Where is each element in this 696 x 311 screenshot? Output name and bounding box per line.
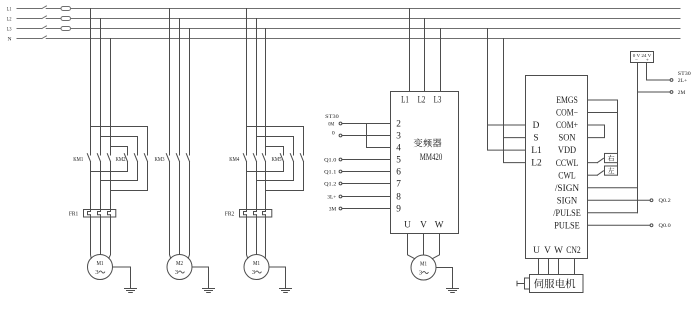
fuse on L3 <box>61 27 71 31</box>
VFD pin 5 number <box>396 156 401 166</box>
thermal relay FR1 box <box>84 210 116 218</box>
wire SIGN to Q0.2 <box>588 199 651 201</box>
svg-text:L2: L2 <box>418 96 426 106</box>
svg-text:3M: 3M <box>329 207 337 213</box>
svg-text:SIGN: SIGN <box>557 196 578 206</box>
servo terminal VDD label <box>558 146 576 156</box>
contactor KM4 contact 1 <box>243 154 246 162</box>
wire L3 drop to VFD <box>440 29 442 92</box>
VFD pin 2 number <box>396 120 401 130</box>
wire phase2 KM4 to FR2 <box>256 162 258 212</box>
wire L2 drop to KM1 contact 2 <box>100 19 102 156</box>
contactor KM2 contact 2 <box>134 154 137 162</box>
wire N drop to KM1 contact 3 <box>110 39 112 156</box>
svg-text:M1: M1 <box>420 261 427 268</box>
svg-text:L2: L2 <box>531 159 542 169</box>
wire L1 drop to KM3 contact 1 <box>169 9 171 156</box>
wire L1 bus segment 3 <box>71 8 681 10</box>
svg-text:S: S <box>533 134 538 144</box>
svg-text:Q1.2: Q1.2 <box>324 182 336 188</box>
servo motor shaft <box>517 278 530 289</box>
svg-text:L2: L2 <box>7 16 12 22</box>
node L2 label <box>7 16 12 22</box>
wire 3M to VFD pin 9 <box>342 208 391 210</box>
servo terminal CWL label <box>558 171 576 181</box>
contactor KM1 contact 2 <box>97 154 100 162</box>
VFD name 变频器 <box>414 138 442 147</box>
svg-text:FR1: FR1 <box>69 211 78 217</box>
wire L2 bus segment 1 <box>17 18 42 20</box>
servo motor label 伺服电机 <box>534 279 575 289</box>
svg-text:2M: 2M <box>678 90 686 96</box>
servo terminal U label <box>533 246 540 256</box>
wire phase3 KM1 to FR1 <box>110 162 112 212</box>
wire L3 drop to KM3 contact 3 <box>189 29 191 156</box>
wire KM5 contact 3 to phase3 <box>266 162 304 191</box>
svg-text:CWL: CWL <box>558 171 576 181</box>
ground (motor M1) <box>280 289 292 293</box>
wire phase3 KM3 to motor M2 <box>188 162 189 259</box>
svg-text:L1: L1 <box>531 146 542 156</box>
wire phase1 KM4 to FR2 <box>246 162 248 212</box>
limit switch left box <box>605 166 618 175</box>
servo terminal V label <box>544 246 551 256</box>
terminal 2M <box>670 90 685 96</box>
svg-text:9: 9 <box>396 205 401 215</box>
wire motor M1 to ground <box>113 267 131 289</box>
VFD terminal L2 label <box>418 96 426 106</box>
wire phase2 to KM2 contact 2 <box>101 137 138 156</box>
contactor KM4 contact 3 <box>262 154 265 162</box>
wire 3L+ to VFD pin 8 <box>342 196 391 198</box>
wire common vertical <box>617 100 619 175</box>
power supply polarity marks <box>635 57 649 63</box>
servo drive U2 box <box>526 76 588 259</box>
contactor KM1 contact 1 <box>87 154 90 162</box>
wire phase1 KM3 to motor M2 <box>170 162 171 259</box>
power supply G1 box <box>631 52 654 63</box>
svg-text:V: V <box>544 246 551 256</box>
wire servo S branch <box>504 137 526 139</box>
terminal 3L+ <box>327 195 342 201</box>
wire phase3 FR1 to motor <box>109 215 111 259</box>
svg-text:5: 5 <box>396 156 401 166</box>
wire KM5 contact 1 to phase1 <box>247 162 284 172</box>
wire phase2 KM3 to motor M2 <box>179 162 181 255</box>
ground (motor M2) <box>203 289 215 293</box>
wire L1 bus segment 2 <box>46 8 61 10</box>
wire servo CN2 to motor <box>574 259 576 275</box>
svg-text:N: N <box>8 36 12 42</box>
wire phase3 FR2 to motor <box>264 215 266 259</box>
frequency converter U1 box <box>391 92 459 234</box>
servo terminal COM+ label <box>556 121 578 131</box>
wire L2 drop to KM4 contact 2 <box>256 19 258 156</box>
wire PULSE to Q0.0 <box>588 224 651 226</box>
wire 0M to VFD pin 2 <box>342 123 391 125</box>
svg-text:MM420: MM420 <box>420 152 443 163</box>
node ST30 label (servo side) <box>678 71 691 77</box>
svg-text:2: 2 <box>396 120 401 130</box>
svg-text:0: 0 <box>332 130 335 136</box>
wire phase2 to KM5 contact 2 <box>257 137 294 156</box>
terminal 2L+ <box>670 78 687 84</box>
svg-text:2L+: 2L+ <box>678 78 687 84</box>
thermal relay FR2 label <box>225 211 234 217</box>
wire servo V to motor <box>548 259 550 275</box>
svg-text:KM3: KM3 <box>155 157 165 163</box>
wire CCWL to limit switch <box>588 162 598 164</box>
wire Q1.0 to VFD pin 5 <box>342 159 391 161</box>
svg-text:CCWL: CCWL <box>556 159 579 169</box>
svg-text:Q1.0: Q1.0 <box>324 158 336 164</box>
svg-text:6: 6 <box>396 168 401 178</box>
wire COM- to common <box>588 112 618 114</box>
jumper pin2 to pin4 <box>367 124 391 148</box>
terminal 3M <box>329 207 342 213</box>
wire VFD V to motor <box>423 234 425 256</box>
contactor KM5 contact 1 <box>280 154 283 162</box>
fuse on L1 <box>61 7 71 11</box>
contactor KM1 contact 3 <box>107 154 110 162</box>
svg-text:Q1.1: Q1.1 <box>324 170 336 176</box>
svg-text:KM5: KM5 <box>272 157 282 163</box>
svg-text:3: 3 <box>175 269 178 276</box>
VFD pin 3 number <box>396 132 401 142</box>
wire KM2 contact 3 to phase3 <box>111 162 148 191</box>
svg-text:8: 8 <box>396 193 401 203</box>
node L3 label <box>7 26 12 32</box>
svg-text:D: D <box>533 121 540 131</box>
servo terminal /SIGN label <box>555 184 580 194</box>
wire 0V down <box>637 63 639 213</box>
svg-text:3: 3 <box>396 132 401 142</box>
servo motor box <box>530 275 584 293</box>
wire L2 bus segment 2 <box>46 18 61 20</box>
motor M1 (KM1/KM2 branch) <box>88 255 113 280</box>
svg-text:/PULSE: /PULSE <box>553 209 581 219</box>
switch on L3 <box>42 26 46 29</box>
svg-text:L1: L1 <box>7 6 12 12</box>
wire phase3 KM4 to FR2 <box>265 162 267 212</box>
wire phase1 KM1 to FR1 <box>90 162 92 212</box>
contactor KM5 label <box>272 157 282 163</box>
svg-text:L1: L1 <box>401 96 409 106</box>
thermal relay FR2 heater 1 <box>244 212 247 215</box>
wire L3 drop to KM4 contact 3 <box>265 29 267 156</box>
servo terminal D label <box>533 121 540 131</box>
limit switch right box <box>605 153 618 162</box>
contactor KM1 label <box>73 157 83 163</box>
terminal Q1.1 <box>324 170 342 176</box>
svg-text:M1: M1 <box>253 260 260 267</box>
VFD pin 6 number <box>396 168 401 178</box>
wire phase1 FR2 to motor <box>247 215 248 259</box>
wire phase1 to KM2 contact 3 <box>91 127 148 156</box>
switch on N <box>42 36 46 39</box>
limit switch right (CCWL) <box>597 158 603 162</box>
svg-text:V: V <box>420 221 427 231</box>
wire phase3 to KM2 contact 1 <box>111 147 128 156</box>
svg-text:Q0.0: Q0.0 <box>659 223 671 229</box>
svg-text:M1: M1 <box>97 260 104 267</box>
servo terminal PULSE label <box>554 221 580 231</box>
wire 24V to 2L+ <box>647 63 671 81</box>
VFD pin 8 number <box>396 193 401 203</box>
contactor KM3 contact 3 <box>186 154 189 162</box>
thermal relay FR2 heater 2 <box>254 212 257 215</box>
wire L3 bus segment 1 <box>17 28 42 30</box>
VFD terminal L1 label <box>401 96 409 106</box>
thermal relay FR2 heater 3 <box>263 212 266 215</box>
fuse on L2 <box>61 17 71 21</box>
wire phase1 FR1 to motor <box>90 215 93 259</box>
servo terminal L1 label <box>531 146 542 156</box>
wire N bus segment 1 <box>17 38 42 40</box>
svg-text:/SIGN: /SIGN <box>555 184 580 194</box>
wire servo U to motor <box>538 259 540 275</box>
svg-text:CN2: CN2 <box>566 246 581 256</box>
VFD pin 7 number <box>396 180 401 190</box>
wire phase1 to KM5 contact 3 <box>247 127 304 156</box>
VFD pin 9 number <box>396 205 401 215</box>
servo terminal COM- label <box>556 109 578 119</box>
motor M1 (VFD) <box>411 255 436 280</box>
contactor KM4 label <box>229 157 239 163</box>
terminal Q1.0 <box>324 158 342 164</box>
contactor KM4 contact 2 <box>253 154 256 162</box>
terminal Q0.0 <box>650 223 671 229</box>
limit switch left label 左 <box>608 167 614 173</box>
contactor KM2 contact 3 <box>144 154 147 162</box>
svg-text:W: W <box>554 246 563 256</box>
contactor KM3 label <box>155 157 165 163</box>
servo terminal CN2 label <box>566 246 581 256</box>
servo terminal S label <box>533 134 538 144</box>
wire phase2 FR2 to motor <box>256 215 258 255</box>
servo terminal EMGS label <box>556 96 578 106</box>
terminal 0M <box>328 121 342 127</box>
svg-text:3: 3 <box>252 269 255 276</box>
svg-text:PULSE: PULSE <box>554 221 580 231</box>
contactor KM3 contact 2 <box>176 154 179 162</box>
svg-text:COM+: COM+ <box>556 121 578 131</box>
wire VFD motor to ground <box>436 268 453 289</box>
wire L1 drop to KM1 contact 1 <box>90 9 92 156</box>
svg-text:7: 7 <box>396 180 401 190</box>
svg-text:KM1: KM1 <box>73 157 83 163</box>
svg-text:VDD: VDD <box>558 146 576 156</box>
contactor KM5 contact 2 <box>290 154 293 162</box>
motor M2 <box>167 255 192 280</box>
svg-text:KM2: KM2 <box>116 157 126 163</box>
wire N bus segment 2 <box>46 38 680 40</box>
wire /PULSE to 0V <box>588 212 638 214</box>
svg-text:COM−: COM− <box>556 109 578 119</box>
wire KM2 contact 1 to phase1 <box>91 162 128 172</box>
wire L3 drop to servo D/L1 <box>488 29 526 151</box>
wire VFD W to motor <box>432 234 439 259</box>
servo terminal CCWL label <box>556 159 579 169</box>
terminal Q0.2 <box>650 198 671 204</box>
wire CWL to limit switch <box>588 174 598 176</box>
VFD pin 4 number <box>396 144 401 154</box>
ground (motor M1) <box>125 289 137 293</box>
wire L2 drop to KM3 contact 2 <box>179 19 181 156</box>
servo terminal /PULSE label <box>553 209 581 219</box>
wire KM5 contact 2 to phase2 <box>257 162 294 181</box>
contactor KM2 contact 1 <box>124 154 127 162</box>
switch on L2 <box>42 16 46 19</box>
svg-text:EMGS: EMGS <box>556 96 578 106</box>
node N label <box>8 36 12 42</box>
servo terminal W label <box>554 246 563 256</box>
wire phase2 KM1 to FR1 <box>100 162 102 212</box>
svg-text:FR2: FR2 <box>225 211 234 217</box>
wire N drop to servo S/L2 <box>504 39 526 163</box>
wire servo D branch <box>488 124 526 126</box>
svg-text:4: 4 <box>396 144 401 154</box>
wire servo W to motor <box>558 259 560 275</box>
svg-text:L3: L3 <box>7 26 12 32</box>
svg-text:L3: L3 <box>434 96 442 106</box>
svg-text:3: 3 <box>95 269 98 276</box>
power supply 0V 24V label <box>633 53 652 58</box>
contactor KM2 label <box>116 157 126 163</box>
terminal Q1.2 <box>324 182 342 188</box>
motor M1 (KM4/KM5 branch) <box>244 255 269 280</box>
ground (VFD motor) <box>447 289 459 293</box>
svg-text:Q0.2: Q0.2 <box>659 198 671 204</box>
svg-text:M2: M2 <box>176 260 183 267</box>
VFD terminal L3 label <box>434 96 442 106</box>
wire L1 drop to KM4 contact 1 <box>246 9 248 156</box>
contactor KM5 contact 3 <box>300 154 303 162</box>
thermal relay FR2 box <box>240 210 272 218</box>
wire L1 drop to VFD <box>409 9 411 92</box>
wire L2 bus segment 3 <box>71 18 681 20</box>
wire /SIGN to 0V <box>588 187 638 189</box>
thermal relay FR1 heater 1 <box>88 212 91 215</box>
wire EMGS to common <box>588 99 618 101</box>
wire KM2 contact 2 to phase2 <box>101 162 138 181</box>
servo terminal SON label <box>559 134 576 144</box>
wire motor M2 to ground <box>192 267 209 289</box>
wire Q1.1 to VFD pin 6 <box>342 171 391 173</box>
wire L2 drop to VFD <box>424 19 426 92</box>
servo terminal L2 label <box>531 159 542 169</box>
svg-text:ST30: ST30 <box>325 114 339 120</box>
wire 0V branch to 2M <box>638 91 671 93</box>
wire VFD U to motor <box>408 234 415 259</box>
svg-text:KM4: KM4 <box>229 157 239 163</box>
svg-text:U: U <box>404 221 411 231</box>
limit switch right label 右 <box>608 155 614 161</box>
thermal relay FR1 label <box>69 211 78 217</box>
wire phase2 FR1 to motor <box>100 215 102 255</box>
svg-text:ST30: ST30 <box>678 71 691 77</box>
wire L3 bus segment 3 <box>71 28 681 30</box>
thermal relay FR1 heater 3 <box>108 212 111 215</box>
svg-text:SON: SON <box>559 134 576 144</box>
limit switch left (CWL) <box>597 171 603 175</box>
wire phase3 to KM5 contact 1 <box>266 147 284 156</box>
switch on L1 <box>42 6 46 9</box>
wire L3 bus segment 2 <box>46 28 61 30</box>
node L1 label <box>7 6 12 12</box>
VFD terminal U label <box>404 221 411 231</box>
wire motor M1 to ground <box>269 267 286 289</box>
contactor KM3 contact 1 <box>166 154 169 162</box>
jumper COM+ to SON <box>588 125 605 138</box>
svg-text:3L+: 3L+ <box>327 195 336 201</box>
wire L1 bus segment 1 <box>17 8 42 10</box>
node ST30 label (VFD side) <box>325 114 339 120</box>
terminal 0 <box>332 130 342 137</box>
thermal relay FR1 heater 2 <box>98 212 101 215</box>
wire 0 to VFD pin 3 <box>342 135 391 137</box>
VFD model MM420 <box>420 152 443 163</box>
svg-text:W: W <box>435 221 444 231</box>
VFD terminal V label <box>420 221 427 231</box>
svg-text:3: 3 <box>419 269 422 276</box>
svg-text:0M: 0M <box>328 121 334 127</box>
wire Q1.2 to VFD pin 7 <box>342 183 391 185</box>
servo terminal SIGN label <box>557 196 578 206</box>
svg-text:U: U <box>533 246 540 256</box>
VFD terminal W label <box>435 221 444 231</box>
